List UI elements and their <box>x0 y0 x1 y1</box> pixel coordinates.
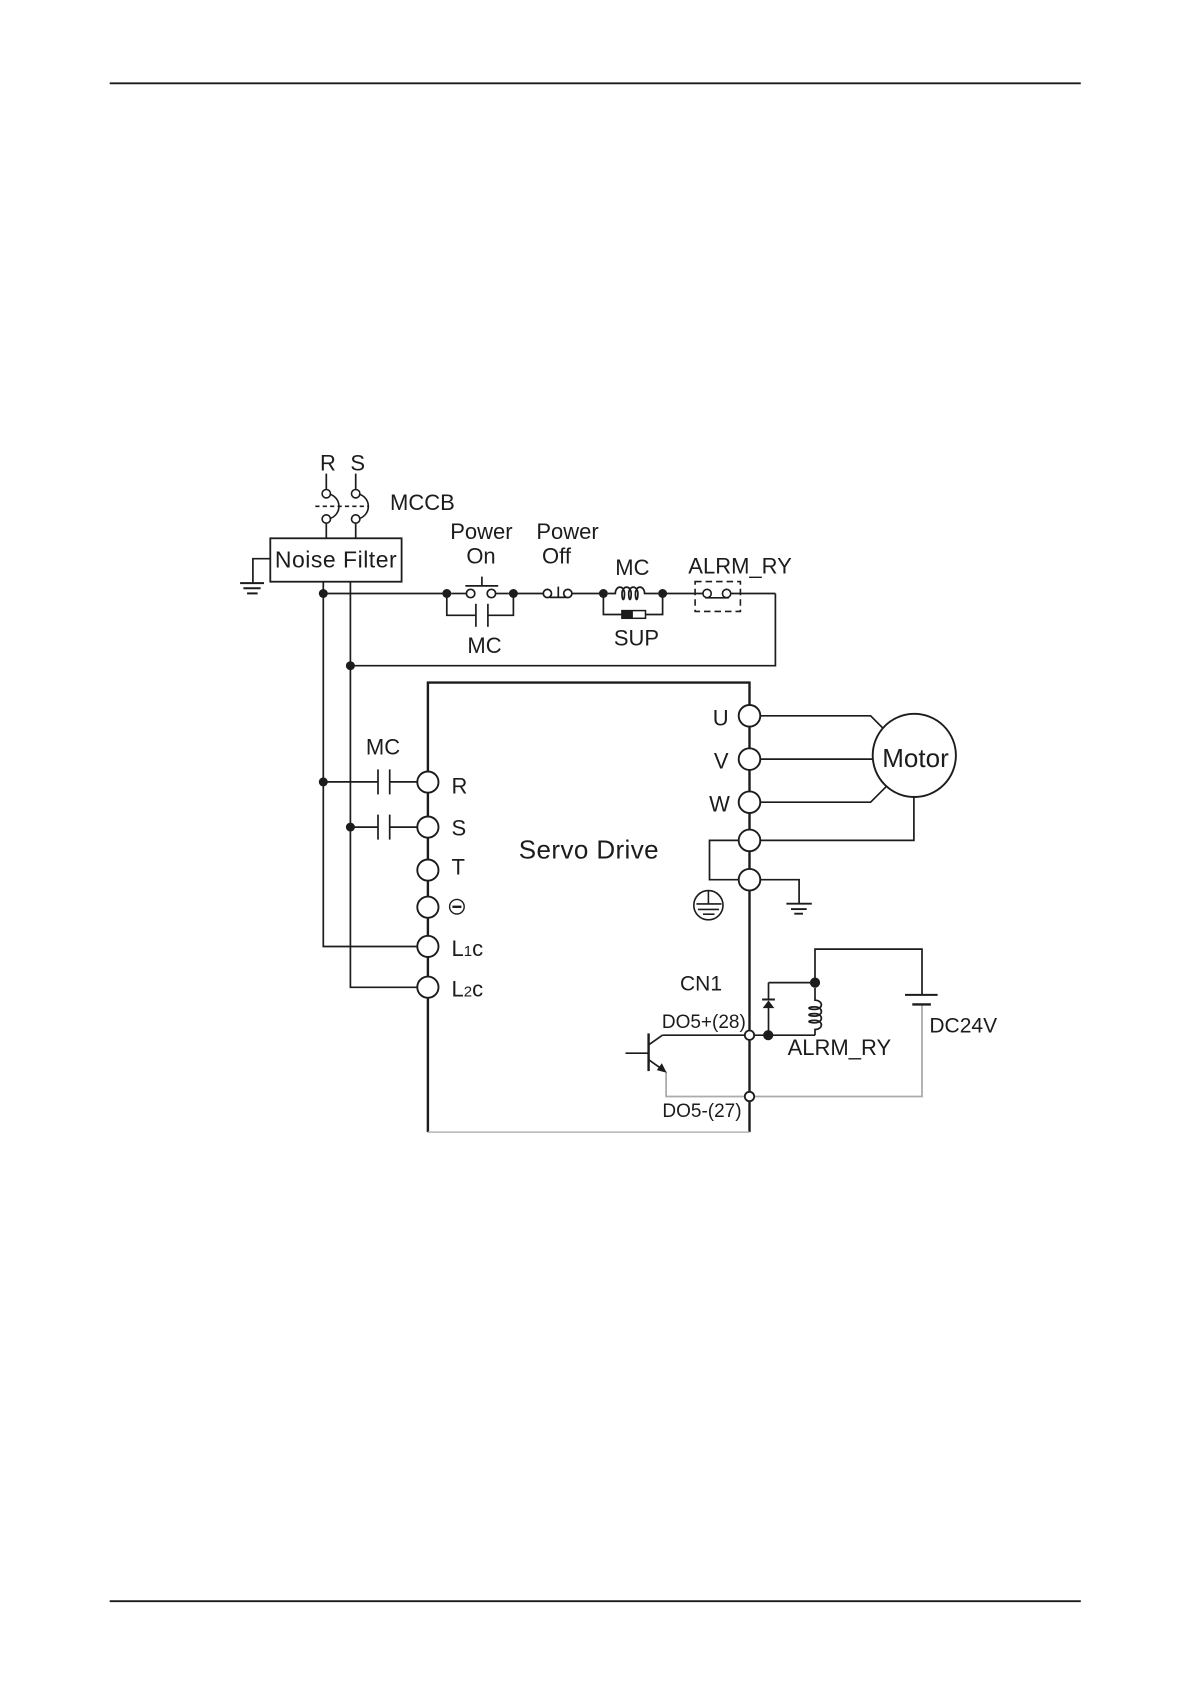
wire terminal4 to motor bottom <box>760 797 914 840</box>
contact MC main (R phase) <box>323 769 417 794</box>
wire DO5+ to relay coil <box>755 1034 815 1036</box>
svg-text:Power: Power <box>450 519 512 544</box>
terminal V <box>739 748 761 770</box>
svg-text:L2c: L2c <box>452 977 484 1002</box>
svg-text:CN1: CN1 <box>680 973 722 996</box>
battery DC24V <box>905 994 938 996</box>
node junction MC coil left <box>599 589 608 598</box>
wire collector to DO5+ <box>662 1034 744 1036</box>
svg-text:S: S <box>452 816 467 841</box>
terminal U <box>739 705 761 727</box>
breaker MCCB pole R <box>322 490 339 524</box>
wire W to motor <box>760 786 886 802</box>
suppressor SUP (parallel with MC coil) <box>603 594 662 615</box>
svg-text:ALRM_RY: ALRM_RY <box>688 553 792 578</box>
wire DC24V return (gray) <box>755 1005 922 1097</box>
wire emitter return (gray) <box>666 1072 744 1097</box>
node junction MC contact S <box>346 823 355 832</box>
svg-text:R: R <box>320 450 336 475</box>
wire S to noise filter <box>355 523 357 538</box>
servo drive box <box>428 683 750 1133</box>
svg-text:S: S <box>350 450 365 475</box>
svg-text:W: W <box>709 792 730 817</box>
wire left column (R phase) down to L1c <box>323 582 417 947</box>
svg-text:On: On <box>466 544 495 569</box>
svg-text:MC: MC <box>467 633 501 658</box>
pushbutton Power Off (NC) <box>543 587 572 598</box>
protective earth symbol <box>694 891 723 920</box>
noise filter box <box>270 538 401 581</box>
wire control line to Power On <box>323 593 447 595</box>
svg-text:V: V <box>714 749 729 774</box>
svg-text:MC: MC <box>615 555 649 580</box>
svg-text:Power: Power <box>536 519 598 544</box>
page bottom rule <box>110 1600 1081 1602</box>
node junction MC contact R <box>319 777 328 786</box>
ground (motor frame) <box>786 904 811 914</box>
svg-text:U: U <box>713 706 729 731</box>
wire Power On to Power Off <box>513 593 543 595</box>
terminal L1c <box>417 936 438 957</box>
wire R to noise filter <box>325 523 327 538</box>
node junction at Power On right <box>509 589 518 598</box>
page top rule <box>110 82 1081 84</box>
svg-text:MC: MC <box>366 734 400 759</box>
jumper terminal4 to terminal5 <box>710 840 739 879</box>
node junction coil top <box>810 978 820 988</box>
diode D1 (flyback) <box>762 983 775 1036</box>
contact MC main (S phase) <box>350 815 417 840</box>
svg-text:T: T <box>452 854 465 879</box>
svg-text:Servo Drive: Servo Drive <box>519 835 659 865</box>
svg-text:Noise Filter: Noise Filter <box>275 547 397 573</box>
svg-text:Off: Off <box>542 544 572 569</box>
wire S lead-in <box>355 474 357 490</box>
terminal 5 (frame earth) <box>739 869 761 891</box>
wire noise filter to earth <box>253 559 270 583</box>
node junction return line <box>346 661 355 670</box>
node junction MC coil right <box>658 589 667 598</box>
coil MC (contactor coil) <box>608 587 658 599</box>
pushbutton Power On (NO) <box>451 577 509 598</box>
relay contact ALRM_RY (dashed box) <box>695 582 740 612</box>
svg-text:Motor: Motor <box>882 743 949 773</box>
terminal W <box>739 791 761 813</box>
terminal 4 (motor earth) <box>739 830 761 852</box>
node junction at Power On left <box>442 589 451 598</box>
wire terminal5 to ground <box>760 880 799 904</box>
wire diode top to coil top <box>769 982 816 984</box>
svg-text:DO5-(27): DO5-(27) <box>662 1101 741 1122</box>
wire U to motor <box>760 716 883 728</box>
svg-text:DO5+(28): DO5+(28) <box>662 1012 746 1033</box>
breaker MCCB pole S <box>352 490 369 524</box>
wire ALRM_RY contact to right drop <box>730 593 775 595</box>
terminal minus <box>417 897 438 918</box>
ground (noise filter earth) <box>240 583 264 593</box>
svg-text:MCCB: MCCB <box>390 490 455 515</box>
transistor Q1 (output, NPN open collector) <box>626 1033 663 1071</box>
terminal DO5+ (pin 28) <box>745 1031 754 1040</box>
contact MC auxiliary (parallel with Power On) <box>447 594 514 627</box>
wire V to motor <box>760 758 873 760</box>
svg-text:ALRM_RY: ALRM_RY <box>788 1035 892 1060</box>
wire MC coil to ALRM_RY contact <box>663 593 704 595</box>
terminal R <box>417 772 438 793</box>
wire Power Off to MC coil <box>572 593 603 595</box>
svg-text:R: R <box>452 774 468 799</box>
breaker MCCB gang link (dashed) <box>315 505 369 507</box>
node junction diode anode <box>763 1030 773 1040</box>
servo drive box bottom edge (light) <box>428 1131 750 1133</box>
wire second column (S phase) down to L2c <box>350 582 417 988</box>
svg-text:SUP: SUP <box>614 626 659 651</box>
wire control return (right drop and bottom run) <box>350 594 775 666</box>
terminal DO5- (pin 27) <box>745 1092 754 1101</box>
terminal T <box>417 860 438 881</box>
terminal S <box>417 817 438 838</box>
motor M <box>873 714 956 797</box>
terminal L2c <box>417 977 438 998</box>
wire R lead-in <box>325 474 327 490</box>
wire coil top to battery <box>815 949 922 995</box>
node junction control line start <box>319 589 328 598</box>
coil ALRM_RY (relay coil) <box>809 988 821 1035</box>
svg-text:L1c: L1c <box>452 936 484 961</box>
svg-text:DC24V: DC24V <box>929 1015 997 1038</box>
